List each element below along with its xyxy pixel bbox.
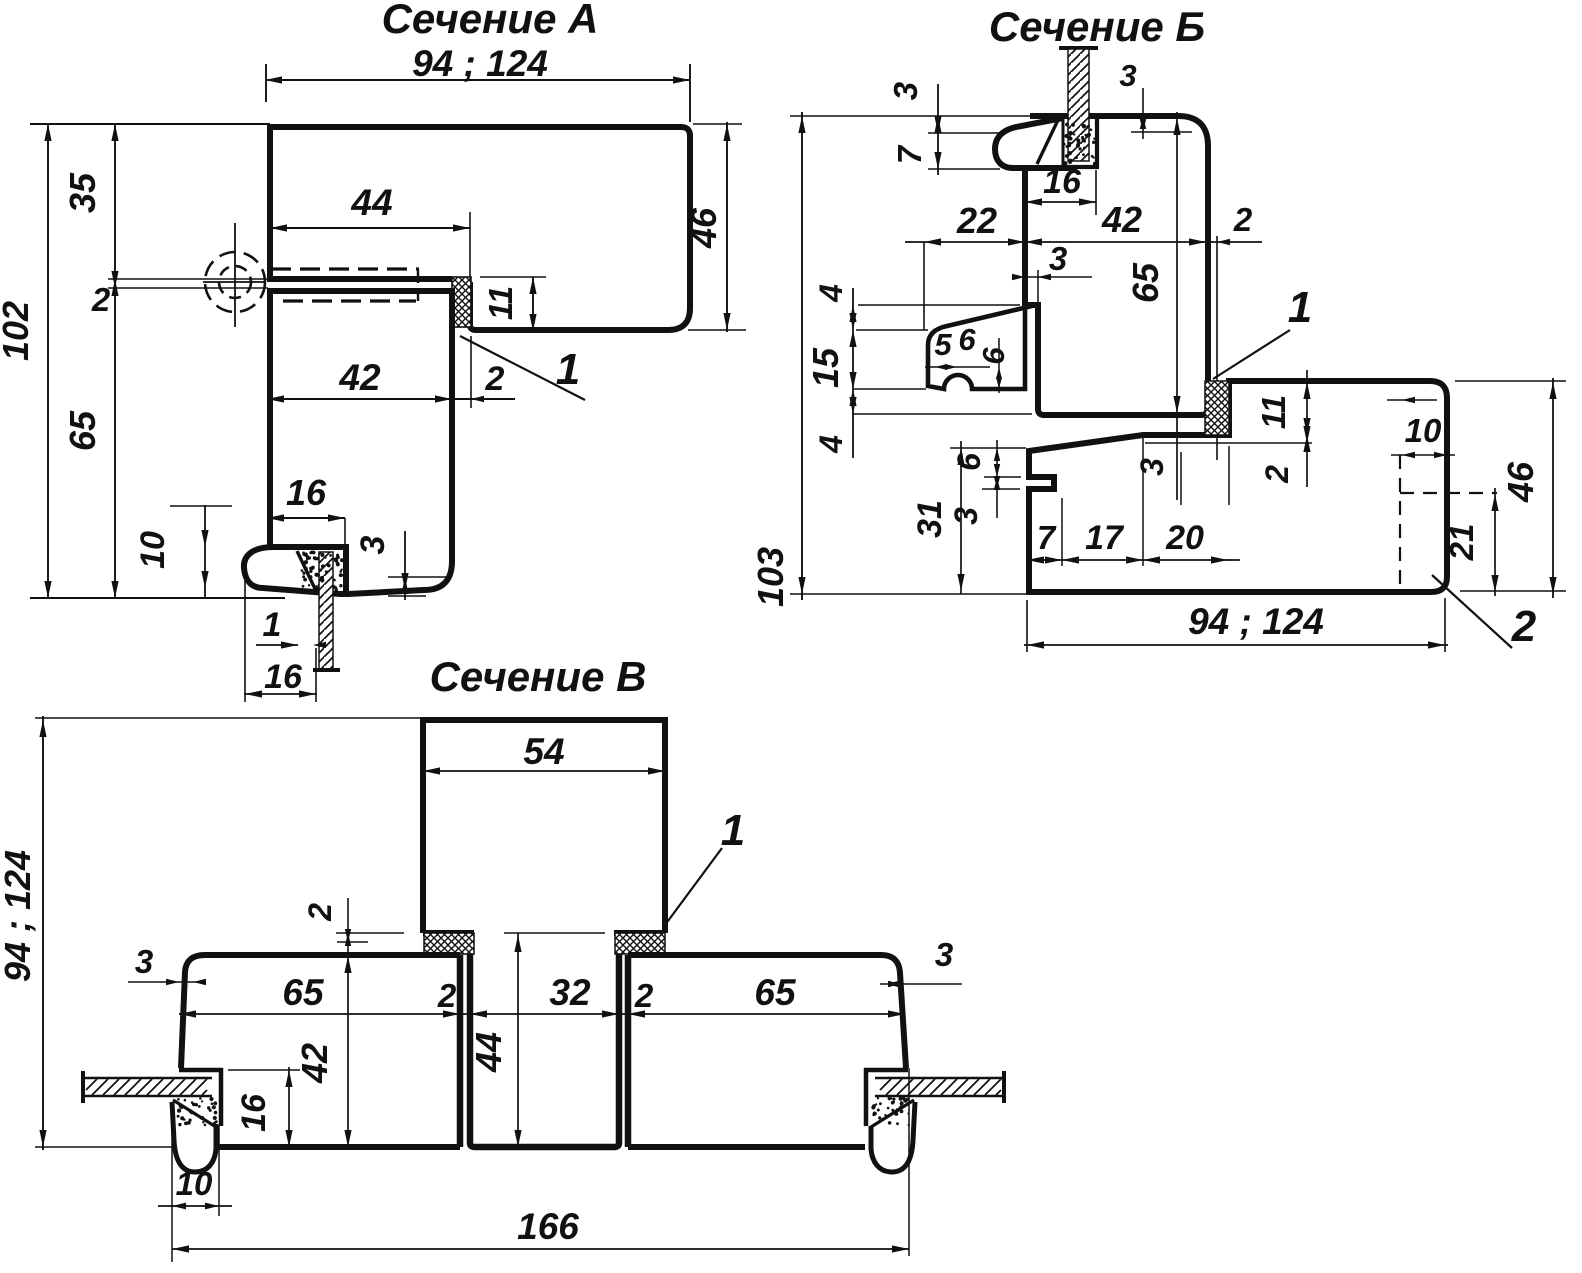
svg-text:3: 3 bbox=[1119, 58, 1136, 93]
svg-text:42: 42 bbox=[1101, 199, 1142, 240]
svg-text:4: 4 bbox=[813, 435, 849, 454]
svg-text:3: 3 bbox=[935, 936, 953, 973]
svg-text:16: 16 bbox=[1043, 163, 1082, 201]
svg-text:5: 5 bbox=[934, 327, 952, 362]
svg-text:Сечение В: Сечение В bbox=[430, 653, 647, 700]
svg-text:94 ; 124: 94 ; 124 bbox=[412, 43, 548, 84]
svg-text:3: 3 bbox=[354, 535, 392, 554]
svg-text:42: 42 bbox=[338, 357, 381, 398]
svg-text:16: 16 bbox=[264, 658, 303, 696]
svg-text:16: 16 bbox=[286, 472, 327, 513]
svg-text:7: 7 bbox=[1037, 519, 1057, 556]
svg-text:Сечение Б: Сечение Б bbox=[989, 3, 1205, 50]
svg-text:11: 11 bbox=[1255, 395, 1292, 429]
svg-text:1: 1 bbox=[1288, 283, 1312, 332]
svg-text:103: 103 bbox=[750, 547, 791, 607]
svg-text:6: 6 bbox=[951, 453, 987, 471]
svg-text:3: 3 bbox=[1049, 240, 1067, 277]
svg-text:15: 15 bbox=[805, 347, 846, 388]
svg-text:2: 2 bbox=[1511, 602, 1537, 651]
svg-text:6: 6 bbox=[958, 322, 976, 357]
svg-text:2: 2 bbox=[302, 903, 338, 922]
svg-text:166: 166 bbox=[517, 1206, 579, 1247]
svg-text:2: 2 bbox=[91, 281, 111, 318]
svg-text:2: 2 bbox=[1233, 201, 1253, 238]
svg-text:65: 65 bbox=[754, 972, 797, 1013]
svg-text:16: 16 bbox=[235, 1093, 273, 1132]
svg-text:65: 65 bbox=[282, 972, 325, 1013]
svg-text:32: 32 bbox=[549, 972, 591, 1013]
svg-text:7: 7 bbox=[891, 144, 928, 164]
svg-text:44: 44 bbox=[468, 1032, 509, 1073]
svg-text:54: 54 bbox=[523, 731, 564, 772]
svg-text:2: 2 bbox=[1259, 465, 1295, 484]
svg-text:94 ; 124: 94 ; 124 bbox=[1188, 601, 1324, 642]
svg-text:31: 31 bbox=[911, 500, 949, 538]
svg-text:11: 11 bbox=[482, 286, 519, 320]
svg-text:2: 2 bbox=[437, 977, 457, 1014]
svg-text:2: 2 bbox=[485, 360, 505, 398]
svg-text:3: 3 bbox=[1134, 458, 1170, 476]
svg-text:21: 21 bbox=[1443, 524, 1480, 562]
svg-text:1: 1 bbox=[556, 345, 580, 394]
svg-text:Сечение А: Сечение А bbox=[382, 0, 599, 42]
svg-text:94 ; 124: 94 ; 124 bbox=[0, 850, 38, 982]
svg-text:102: 102 bbox=[0, 301, 36, 361]
svg-text:3: 3 bbox=[948, 507, 984, 525]
svg-text:44: 44 bbox=[350, 182, 392, 223]
svg-text:3: 3 bbox=[887, 82, 924, 100]
svg-text:4: 4 bbox=[813, 284, 849, 303]
svg-text:17: 17 bbox=[1085, 519, 1125, 557]
svg-text:10: 10 bbox=[176, 1165, 213, 1202]
svg-text:10: 10 bbox=[134, 531, 172, 569]
svg-text:22: 22 bbox=[956, 200, 997, 241]
svg-text:65: 65 bbox=[1125, 262, 1166, 303]
svg-text:46: 46 bbox=[683, 207, 724, 249]
svg-text:10: 10 bbox=[1405, 412, 1442, 449]
svg-text:1: 1 bbox=[721, 806, 745, 855]
svg-text:20: 20 bbox=[1165, 519, 1204, 557]
svg-text:6: 6 bbox=[976, 347, 1011, 365]
svg-text:42: 42 bbox=[294, 1043, 335, 1084]
svg-text:3: 3 bbox=[135, 943, 153, 980]
svg-text:35: 35 bbox=[62, 172, 103, 213]
svg-text:65: 65 bbox=[62, 410, 103, 451]
svg-text:1: 1 bbox=[263, 606, 282, 644]
svg-text:2: 2 bbox=[634, 977, 654, 1014]
svg-text:46: 46 bbox=[1500, 461, 1541, 503]
